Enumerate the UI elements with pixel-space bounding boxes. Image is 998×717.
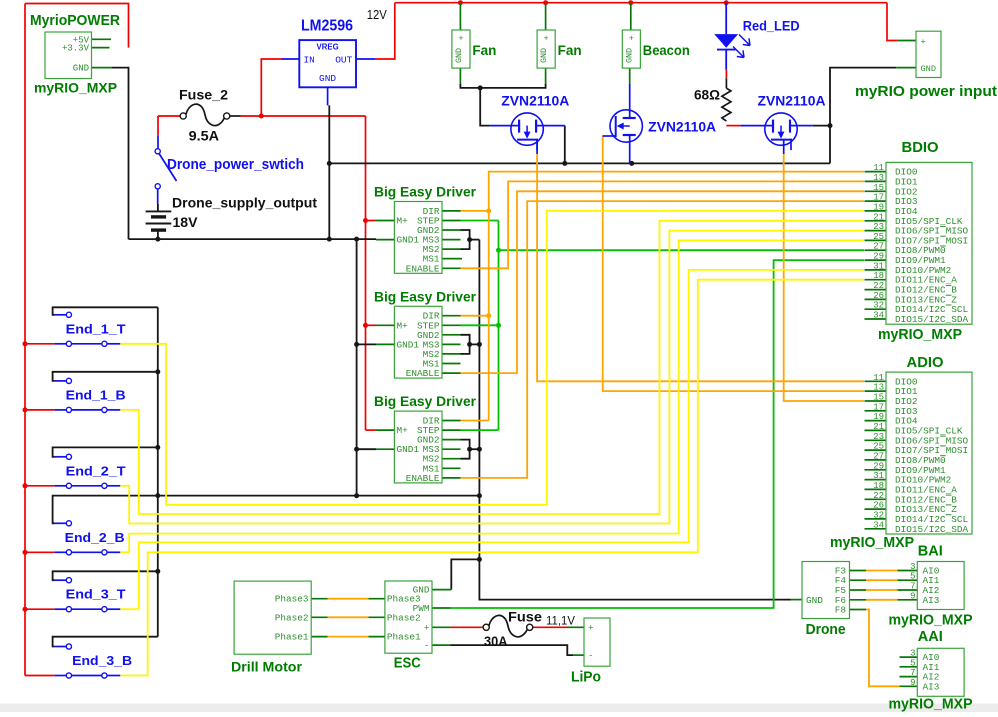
- svg-text:19: 19: [873, 412, 884, 422]
- svg-text:7: 7: [910, 668, 915, 678]
- junction Q3 source at x=830: [828, 123, 833, 128]
- ADIO pin stub row 8: [865, 459, 887, 461]
- pin stub: BED2 DIR stub: [442, 315, 461, 317]
- svg-text:9: 9: [910, 678, 915, 688]
- svg-text:32: 32: [873, 510, 884, 520]
- pin stub: BED3 M+ stub: [376, 429, 394, 431]
- wire: ground bus y=163.4: [329, 162, 830, 164]
- svg-text:17: 17: [873, 402, 884, 412]
- svg-text:29: 29: [873, 461, 884, 471]
- wire: DIO8/PWM0 green line to BDIO pin 27: [499, 249, 865, 251]
- wire: End_1_T to BDIO pin 19: [120, 211, 864, 505]
- wire: drone to BAI orange segment: [866, 579, 898, 581]
- wire: left red rail feeding End switches: [24, 4, 26, 676]
- wire: LM2596 OUT red to 12V rail: [376, 3, 395, 59]
- svg-text:ENABLE: ENABLE: [406, 368, 440, 379]
- resistor R 68ohm zigzag: [722, 88, 731, 121]
- driver module U2 Big Easy Driver box: [394, 202, 442, 275]
- BDIO pin stub row 9: [865, 259, 887, 261]
- svg-text:23: 23: [873, 432, 884, 442]
- connector Drone box: [802, 562, 850, 619]
- wire: Q2 source blue: [629, 142, 631, 163]
- svg-text:IN: IN: [304, 54, 315, 65]
- pin stub: Drill Phase3 stub: [311, 598, 327, 600]
- pin stub: Drone F6 stub: [850, 599, 867, 601]
- wire: BED3 ENABLE to BDIO pin 17: [461, 201, 865, 478]
- svg-text:GND: GND: [454, 48, 464, 63]
- junction fans gnd: [478, 85, 483, 90]
- wire: End switch 3 top bracket: [53, 496, 480, 524]
- wire: GND2 black trunk x=479.4: [478, 240, 480, 560]
- wire: MyrioPOWER +3.3V loop to left rail: [25, 4, 129, 48]
- wire: End switch 4 top bracket: [53, 571, 158, 580]
- svg-text:ADIO: ADIO: [907, 354, 944, 371]
- wire: M+ red trunk feeding Big Easy Drivers: [365, 116, 367, 430]
- pin stub: ESC PWM stub: [432, 607, 451, 609]
- svg-text:Phase3: Phase3: [275, 594, 309, 605]
- pin stub: BED3 GND2 stub: [442, 439, 461, 441]
- svg-text:29: 29: [873, 252, 884, 262]
- wire: fuse2 right stub: [230, 115, 241, 117]
- pin stub: Drone F3 stub: [850, 570, 867, 572]
- pin stub: BED3 ENABLE stub: [442, 477, 461, 479]
- pin stub: BED2 STEP stub: [442, 324, 461, 326]
- controller ESC box: [385, 581, 432, 653]
- svg-text:5: 5: [910, 658, 915, 668]
- svg-text:27: 27: [873, 242, 884, 252]
- pin stub: BED2 ENABLE stub: [442, 372, 461, 374]
- wire: End_1_B to BDIO pin 21: [120, 221, 864, 514]
- ADIO pin stub row 7: [865, 449, 887, 451]
- pin stub: BED3 MS2 stub: [442, 458, 461, 460]
- pin stub: ESC minus stub: [432, 644, 451, 646]
- svg-text:LM2596: LM2596: [301, 18, 353, 35]
- connector Fan box: [537, 30, 555, 68]
- junction on 12V rail: [543, 0, 548, 5]
- svg-text:End_1_T: End_1_T: [66, 321, 126, 336]
- transistor Q1 ZVN2110A: [490, 113, 565, 150]
- svg-text:Fuse: Fuse: [508, 610, 543, 625]
- svg-text:Beacon: Beacon: [643, 42, 690, 58]
- svg-text:7: 7: [910, 582, 915, 592]
- svg-text:+: +: [588, 622, 594, 633]
- wire: fuse to LiPo + red: [533, 626, 567, 628]
- pin stub: BED3 DIR stub: [442, 420, 461, 422]
- svg-text:M+: M+: [397, 216, 409, 227]
- wire: BED1 STEP: [461, 220, 499, 222]
- svg-text:Phase1: Phase1: [387, 632, 421, 643]
- svg-text:MyrioPOWER: MyrioPOWER: [30, 12, 120, 29]
- wire: red drop from fuse corner to switch: [157, 116, 159, 135]
- svg-text:End_3_B: End_3_B: [72, 653, 132, 668]
- wire: End switch 0 top bracket: [53, 307, 158, 315]
- BDIO pin stub row 4: [865, 210, 887, 212]
- wire: BED2 DIR: [461, 315, 489, 317]
- wire: ESC minus to LiPo minus: [451, 645, 574, 655]
- junction Q2 source at bus: [629, 161, 634, 166]
- pin stub: AAI AI1 stub: [900, 666, 918, 668]
- svg-text:3: 3: [910, 649, 915, 659]
- switch End_2_B: [55, 521, 121, 555]
- switch End_3_B: [55, 644, 121, 678]
- wire: BED3 MS3 to trunk: [470, 448, 480, 450]
- svg-text:9: 9: [910, 591, 915, 601]
- pin stub: Drone F4 stub: [850, 579, 867, 581]
- pin stub: BED3 MS1 stub: [442, 467, 461, 469]
- svg-text:AI3: AI3: [923, 681, 940, 692]
- svg-text:ZVN2110A: ZVN2110A: [758, 94, 826, 109]
- svg-text:26: 26: [873, 291, 884, 301]
- svg-text:myRIO_MXP: myRIO_MXP: [34, 80, 117, 96]
- svg-text:Phase2: Phase2: [387, 612, 421, 623]
- pin stub: BED1 STEP stub: [442, 220, 461, 222]
- pin stub: AAI AI2 stub: [900, 676, 918, 678]
- svg-text:21: 21: [873, 212, 884, 222]
- svg-text:18: 18: [873, 481, 884, 491]
- svg-text:Red_LED: Red_LED: [743, 19, 800, 34]
- BDIO pin stub row 5: [865, 220, 887, 222]
- connector ADIO myRIO_MXP box: [873, 372, 972, 535]
- junction on red rail: [23, 407, 28, 412]
- pin stub: BED3 STEP stub: [442, 429, 461, 431]
- wire: drone to BAI orange segment: [866, 589, 898, 591]
- junction LM2596 gnd at y239: [327, 237, 332, 242]
- BDIO pin stub row 14: [865, 308, 887, 310]
- LED Red_LED: [714, 3, 750, 70]
- svg-text:AAI: AAI: [918, 628, 943, 645]
- BDIO pin stub row 1: [865, 180, 887, 182]
- pin stub: LiPo - stub: [573, 654, 584, 656]
- svg-text:Drill Motor: Drill Motor: [231, 659, 303, 675]
- wire: BED1 M+ red: [366, 220, 377, 222]
- pin stub: BED3 GND1 stub: [376, 448, 394, 450]
- wire: End_3_T to BDIO pin 31: [120, 270, 864, 609]
- svg-text:+: +: [921, 37, 926, 47]
- svg-text:-: -: [424, 640, 430, 651]
- battery Drone_supply_output plates: [146, 211, 172, 230]
- svg-text:ESC: ESC: [394, 656, 421, 672]
- wire: Q2 gate to ADIO pin 13: [603, 135, 864, 391]
- wire: drill phase orange segment: [328, 616, 369, 618]
- junction on 12V rail: [628, 0, 633, 5]
- pin stub: ESC GND stub: [432, 589, 451, 591]
- wire: End_3_B to BDIO pin 18: [120, 280, 864, 676]
- pin stub: ESC Phase3 stub: [369, 598, 385, 600]
- wire: Drone GND line: [479, 559, 790, 599]
- svg-text:GND1: GND1: [397, 444, 420, 455]
- wire: BED1 GND2-MS3-MS2 tie: [461, 230, 470, 249]
- pin stub: Drone F5 stub: [850, 589, 867, 591]
- wire: BED2 ENABLE to BDIO pin 15: [461, 191, 865, 373]
- svg-text:End_2_B: End_2_B: [65, 530, 125, 545]
- wire: drill phase orange segment: [328, 598, 369, 600]
- pin stub: BED2 GND2 stub: [442, 334, 461, 336]
- regulator U LM2596: [282, 40, 376, 105]
- wire: BED1 MS3 to trunk: [470, 239, 480, 241]
- svg-text:GND: GND: [73, 64, 89, 74]
- svg-text:25: 25: [873, 442, 884, 452]
- transistor Q2 ZVN2110A (rotated): [605, 110, 642, 142]
- wire: 12V rail drop to myRIO power input +: [887, 3, 898, 41]
- BDIO pin stub row 2: [865, 190, 887, 192]
- pin stub: Beacon GND stub: [629, 68, 631, 84]
- ADIO pin stub row 0: [865, 380, 887, 382]
- BDIO pin stub row 11: [865, 279, 887, 281]
- pin stub: BED1 MS1 stub: [442, 258, 461, 260]
- pin stub: BED1 DIR stub: [442, 210, 461, 212]
- BDIO pin stub row 15: [865, 318, 887, 320]
- wire: End switch 2 top bracket: [53, 447, 158, 456]
- wire: Q3 gate to ADIO pin 15: [784, 154, 864, 401]
- junction on red rail: [23, 341, 28, 346]
- svg-text:myRIO_MXP: myRIO_MXP: [889, 612, 973, 629]
- pin stub: Drone GND stub: [791, 599, 803, 601]
- svg-text:27: 27: [873, 451, 884, 461]
- pin stub: Drill Phase1 stub: [311, 636, 327, 638]
- wire: LM2596 GND vertical: [328, 105, 330, 239]
- svg-text:myRIO power input: myRIO power input: [855, 83, 997, 100]
- wire: red segment resistor to MOSFET Q3 drain: [726, 125, 740, 127]
- ADIO pin stub row 13: [865, 508, 887, 510]
- junction on red rail: [23, 607, 28, 612]
- svg-text:13: 13: [873, 383, 884, 393]
- BDIO pin stub row 7: [865, 239, 887, 241]
- wire: BED2 GND2-MS3-MS2 tie: [461, 335, 470, 354]
- svg-text:+: +: [629, 34, 634, 44]
- svg-text:F8: F8: [835, 605, 847, 616]
- svg-text:Fuse_2: Fuse_2: [179, 87, 228, 103]
- wire: ESC GND riser: [451, 559, 479, 589]
- svg-text:VREG: VREG: [317, 43, 339, 52]
- ADIO pin stub row 10: [865, 479, 887, 481]
- junction bracket bus / long gnd line: [155, 493, 160, 498]
- connector myRIO power input box: [916, 31, 941, 77]
- pin stub: power input GND stub: [896, 67, 916, 69]
- pin stub: MyrioPOWER GND stub: [92, 67, 113, 69]
- wire: BED3 GND2-MS3-MS2 tie: [461, 440, 470, 459]
- wire: battery bottom lead: [157, 230, 159, 239]
- wire: MyrioPOWER GND drop: [112, 68, 129, 240]
- svg-text:GND1: GND1: [397, 235, 420, 246]
- wire: 12V top rail: [395, 2, 887, 4]
- wire: red stub to End switch at y=552.3: [25, 551, 55, 553]
- ADIO pin stub row 14: [865, 518, 887, 520]
- transistor Q3 ZVN2110A: [741, 113, 813, 150]
- pin stub: Beacon + riser: [630, 3, 632, 30]
- wire: Q1 source drop: [564, 126, 566, 164]
- svg-text:GND: GND: [624, 48, 634, 63]
- svg-text:Drone_supply_output: Drone_supply_output: [172, 195, 317, 211]
- svg-text:5: 5: [910, 572, 915, 582]
- pin stub: Drone F8 stub: [850, 609, 867, 611]
- svg-text:End_2_T: End_2_T: [66, 463, 126, 478]
- pin stub: BED2 GND1 stub: [376, 343, 394, 345]
- junction GND1 trunk top: [354, 237, 359, 242]
- ADIO pin stub row 11: [865, 488, 887, 490]
- svg-text:GND: GND: [319, 73, 336, 84]
- svg-text:BDIO: BDIO: [902, 139, 939, 156]
- pin stub: LiPo + stub: [567, 626, 584, 628]
- svg-text:23: 23: [873, 222, 884, 232]
- switch End_2_T: [55, 454, 121, 488]
- motor Drill Motor box: [234, 581, 311, 654]
- ADIO pin stub row 2: [865, 400, 887, 402]
- svg-text:M+: M+: [397, 425, 409, 436]
- svg-text:11: 11: [873, 163, 884, 173]
- wire: BED3 M+ red: [366, 429, 377, 431]
- wire: switch bracket bus x=157.8: [157, 307, 159, 636]
- svg-text:+3.3V: +3.3V: [62, 44, 90, 54]
- junction GND1 trunk bottom: [354, 493, 359, 498]
- svg-text:18V: 18V: [173, 214, 199, 230]
- wire: beacon to Q2 drain blue: [629, 84, 631, 110]
- wire: resistor top black: [725, 78, 727, 88]
- wire: BED2 MS3 to trunk: [470, 343, 480, 345]
- svg-text:18: 18: [873, 271, 884, 281]
- wire: DIR orange trunk to BDIO pin 11: [489, 172, 864, 421]
- pin stub: BED2 M+ stub: [376, 324, 394, 326]
- switch End_3_T: [55, 578, 121, 612]
- switch End_1_B: [55, 378, 121, 412]
- BDIO pin stub row 12: [865, 289, 887, 291]
- pin stub: ESC plus stub: [432, 626, 451, 628]
- pin stub: BED1 M+ stub: [376, 220, 394, 222]
- wire: fan gnd tie bar: [460, 84, 545, 88]
- svg-text:13: 13: [873, 173, 884, 183]
- wire: battery top lead: [157, 204, 159, 211]
- svg-text:myRIO_MXP: myRIO_MXP: [878, 326, 962, 343]
- wire: drone F8 to AAI AI3: [866, 610, 900, 687]
- svg-text:LiPo: LiPo: [571, 670, 601, 686]
- svg-text:OUT: OUT: [335, 54, 352, 65]
- svg-text:Big Easy Driver: Big Easy Driver: [374, 393, 477, 409]
- wire: red stub to End switch at y=409.9: [25, 409, 55, 411]
- wire: red stub to End switch at y=343.8: [25, 343, 55, 345]
- wire: red stub fuse left: [158, 115, 180, 117]
- svg-text:Fan: Fan: [472, 42, 496, 58]
- connector BDIO myRIO_MXP box: [873, 162, 972, 325]
- svg-text:22: 22: [873, 491, 884, 501]
- svg-text:31: 31: [873, 471, 884, 481]
- svg-text:DIO15/I2C_SDA: DIO15/I2C_SDA: [895, 314, 969, 325]
- ADIO pin stub row 4: [865, 420, 887, 422]
- svg-text:15: 15: [873, 183, 884, 193]
- pin stub: BED1 MS2 stub: [442, 248, 461, 250]
- svg-text:22: 22: [873, 281, 884, 291]
- svg-text:GND: GND: [921, 64, 936, 74]
- svg-text:-: -: [588, 650, 594, 661]
- ADIO pin stub row 3: [865, 410, 887, 412]
- svg-text:M+: M+: [397, 320, 409, 331]
- svg-text:+: +: [424, 622, 430, 633]
- svg-text:ZVN2110A: ZVN2110A: [648, 119, 716, 134]
- fuse 30A symbol: [483, 615, 533, 636]
- wire: BED2 M+ red: [366, 324, 377, 326]
- svg-text:30A: 30A: [484, 634, 508, 649]
- svg-text:myRIO_MXP: myRIO_MXP: [830, 534, 914, 551]
- junction on 12V rail: [724, 0, 729, 5]
- pin stub: Fan2 GND stub: [545, 68, 547, 84]
- connector AAI box: [910, 648, 964, 696]
- wire: BED1 DIR: [461, 210, 489, 212]
- driver module U4 Big Easy Driver box: [394, 411, 442, 484]
- ADIO pin stub row 12: [865, 498, 887, 500]
- wire: myRIO power input GND path: [830, 68, 896, 164]
- svg-text:15: 15: [873, 393, 884, 403]
- junction on red rail: [23, 550, 28, 555]
- svg-text:GND: GND: [539, 48, 549, 63]
- svg-text:Drone_power_swtich: Drone_power_swtich: [167, 157, 304, 173]
- pin stub: MyrioPOWER +3.3V stub: [92, 47, 110, 49]
- BDIO pin stub row 6: [865, 230, 887, 232]
- pin stub: Fan1 GND stub: [459, 68, 461, 84]
- wire: ESC + red to fuse: [451, 626, 484, 628]
- svg-text:31: 31: [873, 261, 884, 271]
- pin stub: BED1 MS1 stub ext: [442, 258, 462, 260]
- wire: red riser fuse line to LM2596 IN: [261, 59, 281, 116]
- pin stub: AAI AI0 stub: [900, 656, 918, 658]
- wire: End switch 5 top bracket: [53, 637, 158, 647]
- svg-text:End_1_B: End_1_B: [66, 387, 126, 402]
- ADIO pin stub row 15: [865, 528, 887, 530]
- pin stub: power input + stub: [898, 40, 916, 42]
- wire: BED1 ENABLE to BDIO pin 13: [461, 181, 865, 268]
- pin stub: MyrioPOWER +5V stub: [92, 38, 112, 40]
- wire: Q3 source to gnd riser: [813, 125, 830, 127]
- junction LM2596 gnd at bus163: [327, 161, 332, 166]
- svg-text:+: +: [458, 34, 463, 44]
- pin stub: Drill Phase2 stub: [311, 616, 327, 618]
- pin stub: BED2 MS2 stub: [442, 353, 461, 355]
- BDIO pin stub row 10: [865, 269, 887, 271]
- pin stub: BED2 MS3 stub: [442, 343, 461, 345]
- wire: drill phase orange segment: [328, 636, 369, 638]
- wire: BED3 GND1: [357, 448, 376, 450]
- pin stub: Fan1 + riser: [459, 3, 461, 30]
- junction on red rail: [23, 483, 28, 488]
- svg-text:ZVN2110A: ZVN2110A: [501, 94, 569, 109]
- BDIO pin stub row 3: [865, 200, 887, 202]
- connector Beacon box: [622, 30, 640, 68]
- ADIO pin stub row 1: [865, 390, 887, 392]
- wire: BED2 STEP: [461, 324, 499, 326]
- pin stub: BAI AI0 stub: [898, 570, 918, 572]
- svg-text:21: 21: [873, 422, 884, 432]
- svg-text:GND: GND: [806, 595, 823, 606]
- wire: fuse output 18V line to BED M+ trunk: [241, 115, 366, 117]
- pin stub: AAI AI3 stub: [900, 685, 918, 687]
- junction battery minus: [155, 237, 160, 242]
- svg-text:ENABLE: ENABLE: [406, 263, 440, 274]
- wire: ESC PWM to BDIO pin 29: [451, 260, 865, 608]
- pin stub: BAI AI2 stub: [898, 589, 918, 591]
- svg-text:17: 17: [873, 193, 884, 203]
- svg-text:+: +: [544, 34, 549, 44]
- battery LiPo box: [584, 618, 610, 666]
- junction ESC gnd / drone gnd: [477, 557, 482, 562]
- pin stub: BED2 MS1 stub: [442, 363, 461, 365]
- ADIO pin stub row 9: [865, 469, 887, 471]
- wire: BED2 GND1: [357, 343, 376, 345]
- junction on 12V rail: [458, 0, 463, 5]
- wire: Q2 gate stub: [603, 135, 606, 137]
- svg-text:GND1: GND1: [397, 339, 420, 350]
- driver module U3 Big Easy Driver box: [394, 306, 442, 379]
- wire: Q1 gate blue stub: [536, 140, 538, 154]
- svg-text:32: 32: [873, 301, 884, 311]
- pin stub: BED3 MS3 stub: [442, 448, 461, 450]
- ADIO pin stub row 6: [865, 439, 887, 441]
